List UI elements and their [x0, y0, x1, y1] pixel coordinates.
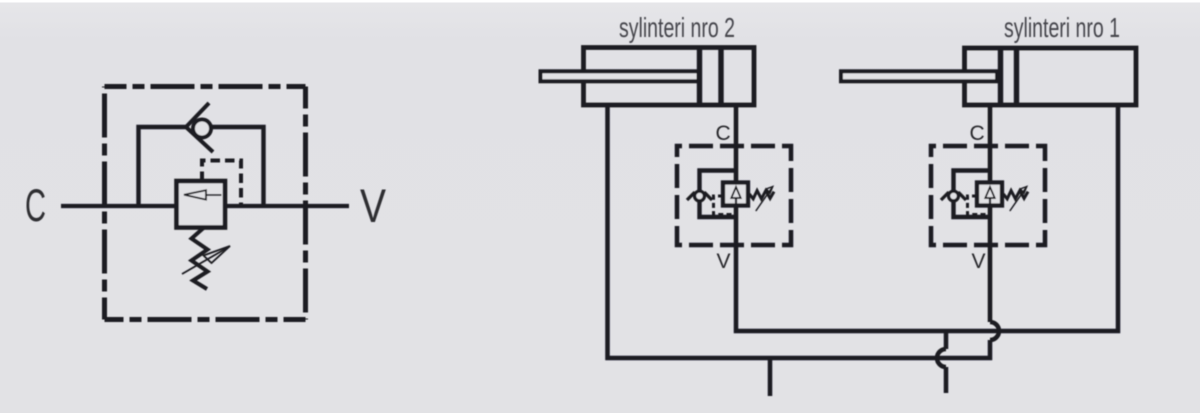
valve2 pilot dashed [714, 196, 734, 215]
wire line B (cyl2 rod port to riser corner) [608, 105, 991, 358]
valve1 check ball [949, 191, 959, 201]
valve2 spring [749, 191, 774, 199]
svg-text:sylinteri nro 2: sylinteri nro 2 [619, 12, 735, 43]
cylinder 1 piston line 2 [1014, 48, 1019, 105]
pilot line dashed [202, 161, 241, 205]
wire stub from line A with hop over line B [944, 331, 949, 349]
svg-text:V: V [972, 250, 986, 273]
check valve ball [193, 120, 211, 138]
valve2 check ball [695, 191, 705, 201]
cylinder 2 rod [541, 71, 699, 81]
cylinder 2 piston line 2 [718, 48, 723, 106]
svg-text:C: C [970, 122, 985, 145]
valve body U1 [177, 181, 226, 228]
valve1 main line (port C down to hop) [988, 105, 993, 322]
cylinder 1 barrel [965, 48, 1137, 105]
valve2 enclosure dashed box [677, 146, 791, 245]
valve2 bypass loop [700, 171, 737, 218]
wire riser hop over line A [990, 322, 999, 340]
valve1 bypass loop [954, 171, 991, 218]
svg-text:C: C [25, 180, 46, 231]
valve1 pilot dashed [968, 196, 988, 215]
valve2 spring arrow [756, 187, 773, 212]
valve1 spring [1003, 191, 1028, 199]
spring adjust arrow [182, 249, 226, 275]
enclosure dash-dot box [105, 84, 306, 89]
cylinder 1 rod [841, 71, 997, 81]
valve2 flow arrow [735, 198, 737, 204]
valve2 check seat [687, 192, 712, 200]
valve2 body [723, 183, 748, 206]
valve1 spring arrow [1010, 187, 1027, 212]
cylinder 2 barrel [584, 48, 755, 106]
valve1 body [977, 183, 1002, 206]
wire stub down from line B [768, 358, 773, 396]
flow arrow [206, 194, 222, 196]
valve2 main line (cylinder port C to corner) [734, 105, 739, 250]
wire bypass loop left branch [139, 127, 187, 206]
svg-text:V: V [360, 179, 387, 232]
wire line A (valve2 V to cylinder1 cap port) [736, 105, 1118, 331]
svg-text:V: V [717, 250, 731, 273]
valve1 check seat [941, 192, 966, 200]
valve1 enclosure dashed box [931, 146, 1045, 245]
wire main C-V line [61, 204, 349, 208]
svg-text:sylinteri nro 1: sylinteri nro 1 [1004, 12, 1120, 43]
spring [192, 228, 208, 290]
check valve seat [186, 103, 213, 152]
wire bypass loop right branch [211, 127, 264, 206]
cylinder 1 piston line 1 [998, 48, 1003, 105]
valve1 flow arrow [989, 198, 991, 204]
svg-text:C: C [716, 122, 731, 145]
cylinder 2 piston line 1 [697, 48, 702, 106]
